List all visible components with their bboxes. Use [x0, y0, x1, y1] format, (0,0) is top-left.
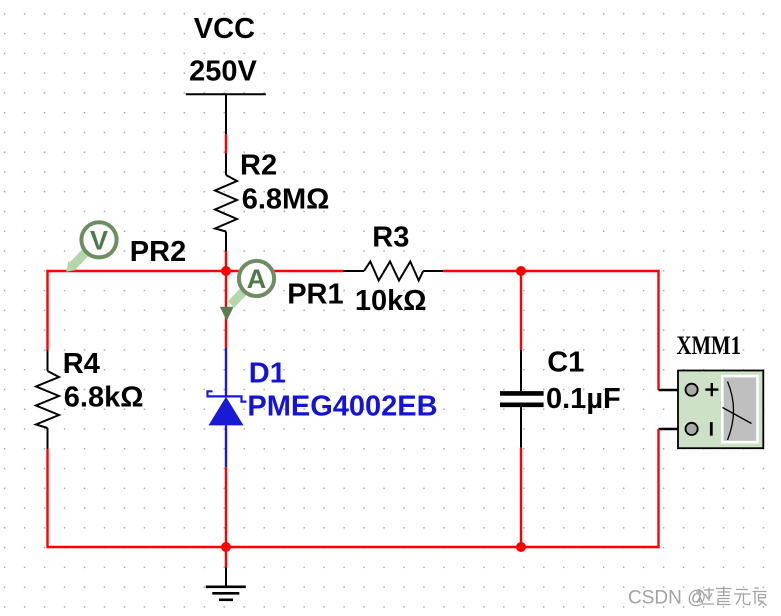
- resistor R3: [355, 222, 427, 318]
- node junction top at C1: [516, 266, 526, 276]
- svg-text:A: A: [247, 264, 267, 294]
- wire XMM1 minus stub (black): [659, 428, 687, 430]
- resistor R4: [36, 348, 144, 428]
- wire R3 right lead: [423, 270, 443, 272]
- svg-text:R2: R2: [240, 150, 277, 182]
- wire diode to bottom node (red): [225, 467, 227, 547]
- wire right vertical upper (red): [657, 270, 659, 390]
- wire R4 bottom lead: [47, 428, 49, 449]
- wire R2 top lead: [225, 154, 227, 176]
- wire top node down to diode (red): [225, 271, 227, 348]
- svg-text:PR2: PR2: [130, 236, 186, 268]
- resistor R2: [215, 150, 329, 232]
- power VCC symbol: [186, 13, 266, 94]
- probe PR1 (current): [220, 261, 344, 321]
- wire ground stub (red): [225, 547, 227, 567]
- watermark CSDN: [628, 587, 767, 609]
- wire bottom horizontal: [48, 546, 659, 548]
- wire R3 to C1 node and right corner (red): [443, 270, 659, 272]
- svg-text:R3: R3: [372, 222, 409, 254]
- svg-text:PMEG4002EB: PMEG4002EB: [247, 390, 437, 422]
- svg-text:250V: 250V: [189, 55, 257, 87]
- svg-text:CSDN @: CSDN @: [628, 587, 706, 608]
- svg-text:6.8MΩ: 6.8MΩ: [242, 184, 330, 216]
- wire left vertical lower (red): [46, 449, 48, 548]
- wire VCC bar down to R2 (black upper segment): [225, 94, 227, 134]
- ground: [206, 567, 246, 599]
- svg-text:10kΩ: 10kΩ: [355, 285, 427, 317]
- svg-text:XMM1: XMM1: [677, 330, 742, 360]
- capacitor C1: [500, 271, 621, 547]
- svg-text:C1: C1: [547, 347, 584, 379]
- node junction bottom at ground: [221, 542, 231, 552]
- svg-text:R4: R4: [63, 348, 100, 380]
- svg-text:PR1: PR1: [287, 278, 343, 310]
- svg-text:D1: D1: [249, 358, 286, 390]
- wire top horizontal left (node to left corner): [48, 270, 344, 272]
- wire left vertical: [46, 270, 48, 350]
- wire R4 top lead: [47, 350, 49, 371]
- wire right vertical lower (red): [657, 429, 659, 548]
- node junction top at R2/PR wires: [221, 266, 231, 276]
- svg-text:6.8kΩ: 6.8kΩ: [64, 382, 144, 414]
- svg-text:0.1µF: 0.1µF: [546, 383, 621, 415]
- wire R2 bottom lead: [225, 232, 227, 252]
- wire R3 left lead: [344, 270, 365, 272]
- probe PR2 (voltage): [66, 222, 186, 272]
- node junction bottom at C1: [516, 542, 526, 552]
- wire red segment above R2: [225, 134, 227, 154]
- svg-text:VCC: VCC: [194, 13, 255, 45]
- diode D1 (Schottky, blue): [208, 348, 438, 467]
- wire R2 to top node (red): [225, 251, 227, 271]
- multimeter XMM1: [677, 330, 764, 448]
- wire XMM1 plus stub (black): [659, 389, 687, 391]
- svg-text:V: V: [90, 226, 108, 256]
